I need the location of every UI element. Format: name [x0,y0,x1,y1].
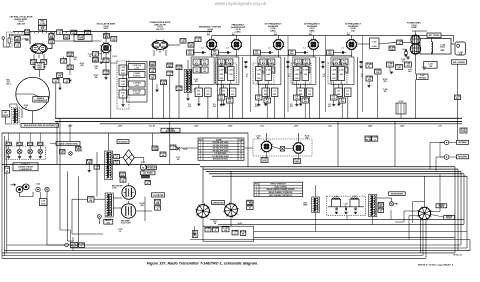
svg-text:16: 16 [119,231,121,233]
svg-text:C-102: C-102 [21,39,26,41]
svg-text:L-107: L-107 [295,70,299,72]
ballast tube RT101 [192,230,197,237]
wires mic transformer [6,117,12,124]
svg-text:100: 100 [177,159,180,161]
svg-text:C-120 470: C-120 470 [133,81,141,84]
svg-text:330: 330 [105,61,108,63]
svg-text:1MEG: 1MEG [93,60,99,62]
bypass cap V104 [220,61,223,63]
mv adjust label box [117,140,129,144]
svg-text:C-119 47: C-119 47 [133,72,140,75]
plug PG101 [6,142,11,145]
svg-text:Y-101: Y-101 [40,23,45,25]
inner boxes V106 [260,59,267,65]
svg-text:100: 100 [257,98,260,100]
svg-text:C-1: C-1 [268,48,271,50]
svg-text:T-3: T-3 [240,148,242,150]
ps lower network box [203,226,254,241]
svg-text:COIL: COIL [121,73,125,75]
coupling boxes V107t [331,95,338,100]
tube V104 [207,40,217,50]
svg-text:270K: 270K [68,68,73,70]
ground V106 [264,103,267,105]
svg-text:50: 50 [89,56,91,58]
screen resistor V106 [262,88,270,97]
ps resistor R150 [247,200,254,204]
grid cap V104 [202,51,204,54]
tube V110 upper [122,186,136,200]
T102 aux boxes [176,65,182,70]
keying relay K103 [71,242,78,247]
handset icon [16,187,23,193]
svg-text:L-102: L-102 [135,68,139,70]
svg-text:F-101: F-101 [213,221,217,223]
svg-text:3-30: 3-30 [121,84,124,86]
svg-text:TUNE: TUNE [239,139,243,141]
svg-text:R-118 1K: R-118 1K [133,76,141,78]
wire line out [377,197,392,199]
svg-text:470: 470 [346,93,349,96]
grid cap V108 [342,51,344,54]
svg-text:12SL7GT: 12SL7GT [17,24,27,26]
tube V102 oscillator ampl [101,43,111,53]
svg-text:L-101: L-101 [121,67,125,69]
svg-text:MODULATION LEVEL ADJUSTMENT: MODULATION LEVEL ADJUSTMENT [24,124,57,127]
cathode cap V107 [306,88,313,97]
wire V105 plate [235,35,237,39]
svg-text:L-103: L-103 [135,85,139,87]
tube V106 [274,40,284,50]
svg-text:470: 470 [297,62,300,65]
bleeder R152 [240,231,246,236]
audio amp mid boxes [67,52,73,57]
voltmeter box [152,193,165,197]
svg-text:100: 100 [112,39,115,41]
wires bridge [113,157,124,159]
svg-text:.01: .01 [122,180,124,182]
svg-text:PG-101: PG-101 [6,144,11,146]
svg-text:3-30: 3-30 [340,74,343,76]
ground audio amp [58,87,61,89]
svg-text:100: 100 [398,68,401,70]
wire V107 plate [312,35,314,39]
svg-text:C-131: C-131 [112,56,117,58]
svg-text:COIL: COIL [295,78,299,80]
svg-text:1MEG: 1MEG [150,64,156,66]
grid line lower [216,55,352,57]
svg-text:.01: .01 [16,45,18,47]
svg-text:C-116: C-116 [121,81,126,83]
socket X101 current regulator [197,205,210,218]
cathode cap V105 [229,88,236,97]
svg-text:C-1: C-1 [308,91,311,93]
resistor R101 [15,37,21,42]
ps loop wires [71,199,73,234]
svg-text:8: 8 [235,233,236,235]
svg-text:ILLUMINATION: ILLUMINATION [19,168,32,171]
svg-text:470: 470 [273,93,276,96]
vertical riser x338 [337,121,339,166]
handset arrow [11,184,16,186]
svg-text:C-1: C-1 [273,91,276,93]
wires V108 to bus [338,85,340,89]
svg-text:POS: POS [199,139,202,141]
ground V105 [222,103,225,105]
rect section left wire [96,152,98,197]
bus bottom 258.3 [2,257,426,259]
tube V101 twin triode [31,44,47,53]
svg-text:SW: SW [89,200,92,202]
inner boxes V105 [218,59,225,65]
svg-text:6AK5: 6AK5 [270,30,276,33]
wires V106 to bus [265,85,267,89]
mic plug circle [389,202,393,206]
svg-text:470: 470 [335,62,338,65]
cathode cap V104 [205,88,212,97]
svg-text:100: 100 [257,137,260,139]
bus bottom 255.6 [2,255,423,257]
svg-text:R-1: R-1 [337,91,340,93]
wires T104 to tubes [113,197,122,199]
wire V102 plate [105,32,107,44]
meter cap C132 [155,206,161,211]
svg-text:250: 250 [74,59,77,61]
filter hump coil 1 [332,199,341,207]
tube V108 [347,40,357,50]
tube V105 [232,40,242,50]
svg-text:P-108: P-108 [249,203,253,205]
osc plate boxes [104,34,110,39]
mic input box [2,111,10,118]
svg-text:C-1: C-1 [226,48,229,50]
svg-text:www.royalsignals.org.uk: www.royalsignals.org.uk [214,1,267,6]
inner boxes V108 [333,59,340,65]
wires jacks [449,142,457,144]
PA left caps [407,56,410,58]
svg-text:R-1: R-1 [299,91,302,93]
svg-text:470: 470 [262,62,265,65]
svg-text:C-1: C-1 [246,74,249,76]
vertical riser x60 [59,118,61,230]
svg-text:L-1: L-1 [347,33,350,35]
coupling boxes V106t [294,95,301,100]
svg-text:47: 47 [122,95,124,98]
wire plug left [395,211,418,222]
tank circuit box L-105 [216,63,237,84]
cathode string V102 [100,51,102,60]
screen network box V108 [331,57,354,85]
aux resistor boxes left of T103 [87,160,93,165]
speech compensator circle [16,77,50,111]
receiver jack J103 [444,155,449,160]
svg-text:470: 470 [195,62,198,65]
shield partition 4 [362,36,364,112]
svg-text:T-6: T-6 [240,156,242,158]
svg-text:COIL: COIL [257,78,261,80]
left wrap wire outer [1,133,3,258]
ground V108 [337,103,340,105]
wire V108 plate [351,35,353,39]
svg-text:C-136: C-136 [266,70,271,72]
receiver label box [457,155,469,159]
svg-text:100: 100 [151,71,154,73]
svg-text:C-1: C-1 [341,48,344,50]
ground V101 cathode [32,66,35,68]
audio outline box [74,34,92,41]
svg-text:C-153: C-153 [428,63,433,65]
ps switch S101 [88,197,95,203]
svg-text:8: 8 [208,230,209,232]
svg-text:C-1: C-1 [303,48,306,50]
filter caps [335,208,337,211]
vertical riser x170 [169,121,171,164]
wires V107 to bus [300,85,302,89]
capacitor C101 [15,43,21,48]
speech compensator box [33,97,49,102]
svg-text:R-131: R-131 [141,162,145,164]
dark adjust slug [142,175,150,178]
svg-text:R-1: R-1 [213,104,216,106]
vertical riser x70 [69,124,71,142]
bus right riser 2 [457,169,459,251]
meter resistor R133 [155,200,161,205]
svg-text:TERM: TERM [461,131,467,133]
wire antenna feed down [457,64,459,140]
left small component R-161 [5,167,10,174]
svg-text:8: 8 [157,208,158,210]
handset plug PL68 [45,187,49,191]
filter hump coil 2 [350,199,359,207]
tube V111 lower rectifier [121,204,135,218]
handset jack J104 [36,187,40,191]
coupling caps V8 PA [366,63,373,68]
svg-text:470: 470 [195,80,198,83]
svg-text:829B: 829B [412,27,417,29]
tank circuit box L-107 [291,63,311,84]
antenna feedthru [455,42,466,55]
antenna loading box [452,60,467,64]
svg-text:C-133: C-133 [229,70,234,72]
svg-text:100: 100 [220,98,223,100]
cathode cap V106 [271,88,278,97]
oven resistor R139 [160,152,166,157]
receptacle box [104,219,113,224]
svg-text:L-1: L-1 [274,33,277,35]
shield partition 3 [325,36,327,112]
svg-text:.01: .01 [374,139,376,141]
wire handset to keying [47,192,65,245]
phase shift network box [127,62,148,103]
xtal osc adjustment callout [161,128,180,132]
tank circuit box L-108 [328,63,347,84]
PA cathode network [387,62,394,67]
bus right riser 3 [460,171,462,245]
svg-text:.5: .5 [172,148,173,150]
mic transformer T101 [14,109,15,112]
svg-text:L-1: L-1 [207,33,210,35]
svg-text:6AK5: 6AK5 [235,31,241,34]
rectifier bridge CR101 [123,150,134,166]
svg-text:1MEG: 1MEG [295,162,301,164]
svg-text:.01: .01 [58,33,60,35]
svg-text:ANT. LOADING: ANT. LOADING [453,61,466,64]
grid cap V105 [226,51,228,54]
grid resistor R114 [93,58,99,63]
capacitor C103 [41,60,47,65]
svg-text:100K: 100K [79,38,84,40]
capacitor C102 [26,38,29,40]
bus right riser 1 [454,167,456,253]
bus ps to plug 219 [210,218,464,220]
control cable box [436,204,447,208]
left wrap wire third [6,140,8,253]
svg-text:.005: .005 [104,73,107,75]
microphone callout box [389,192,406,196]
wire PA plate up [415,31,417,35]
current regulator box [212,201,225,205]
screen network box V105 [216,57,239,85]
grid resistor V108 [327,50,334,55]
wire V106 plate [277,35,279,39]
plug PG103 [28,142,33,145]
socket X102 current regulator [225,204,238,217]
oven cap C154 [170,145,176,150]
meter M101 [140,164,146,170]
second rail y41 [55,40,101,42]
wire plug riser down 2 [422,219,424,255]
svg-text:47: 47 [95,53,97,56]
svg-text:POS: POS [255,184,258,186]
loading coil component [455,95,461,100]
svg-text:R-161: R-161 [5,168,10,170]
filter output stubs [315,213,317,232]
svg-text:500K: 500K [37,68,42,70]
handset cord [20,192,34,197]
svg-text:CABLE CONNECTIONS: CABLE CONNECTIONS [58,142,78,145]
tube V103 phase modulator [152,41,168,50]
svg-text:L-1: L-1 [232,33,235,35]
svg-text:.05: .05 [65,81,67,83]
relay K101 [396,103,406,114]
wires keying [68,244,70,246]
svg-text:.005: .005 [195,71,198,73]
ant tuning box [427,33,441,38]
wires V103 pins [153,50,155,56]
antenna jack J102 [444,140,449,145]
fuse box F102 [60,150,66,154]
svg-text:.005: .005 [368,79,371,81]
wires coil box [122,75,124,79]
crystal X mark [177,147,181,151]
line transformer T106 [371,196,372,199]
svg-text:L-117: L-117 [353,196,357,198]
mic input jack J101 [7,32,13,47]
svg-text:T-2: T-2 [240,145,242,147]
bus group line 2 [203,168,458,170]
bypass cap V105 [244,61,247,63]
bus ps to plug 224.6 [218,224,464,226]
slug boxes [145,181,151,185]
wires ps verticals [202,167,204,205]
wire plug to bus up [424,176,426,207]
svg-text:T-1: T-1 [240,142,242,144]
resistor R102 [25,30,30,35]
wire V1 grid [9,35,30,44]
svg-text:C-1: C-1 [201,48,204,50]
svg-text:47: 47 [116,156,118,159]
svg-text:220K: 220K [64,37,69,39]
svg-text:3-30: 3-30 [304,74,307,76]
wires V103 to bus [152,79,154,118]
wires V101 pins down [33,54,35,60]
V103 grid boxes [150,62,156,67]
svg-text:CURRENT REG: CURRENT REG [212,202,224,204]
PA tank coil [432,42,433,44]
vertical riser x78 [77,176,79,240]
svg-text:6865TS D—53 (Face page 208): 6865TS D—53 (Face page 208) No. 8 [418,264,454,266]
grid resistor V107 [288,50,295,55]
svg-text:RELAY: RELAY [365,138,372,141]
bus ps to plug 231.5 [254,231,467,233]
wire crystal to bus [42,30,44,32]
pilot lamp I101 [97,215,101,219]
svg-text:V-110: V-110 [112,188,117,190]
resistor R103 [31,60,37,65]
mic jack resistor R145 [378,203,384,207]
svg-text:100: 100 [332,98,335,100]
svg-text:R-1: R-1 [328,104,331,106]
bus group line 4 [209,173,464,175]
wire V104 plate [211,35,213,39]
svg-text:100: 100 [182,41,185,43]
wire plug right up [431,211,440,213]
bus bottom 252.9 [2,252,455,254]
screen resistor V105 [220,88,228,97]
screen network box V107 [293,57,316,85]
filter cap C161 [213,227,219,232]
grid cap V107 [303,51,305,54]
svg-text:VOLTMETER: VOLTMETER [153,195,164,197]
svg-text:100: 100 [151,77,154,79]
svg-text:T-107: T-107 [372,41,376,43]
svg-text:SW: SW [77,149,80,151]
screen resistor V108 [335,88,343,97]
svg-text:T-5: T-5 [240,153,242,155]
svg-text:100: 100 [178,89,181,91]
screen network box V104 [191,57,214,85]
svg-text:470K: 470K [120,174,125,177]
plug PG104 [38,142,43,145]
svg-text:J-101: J-101 [41,200,45,202]
svg-text:CONTROL: CONTROL [438,204,445,206]
wires ps risers [98,219,100,225]
afc transformer T103 [107,152,108,155]
lamp I102 [69,152,73,156]
svg-text:C-1: C-1 [206,91,209,93]
keyer line from multivib [172,147,198,149]
ground ps [193,233,196,235]
svg-text:C-1: C-1 [361,74,364,76]
svg-text:PG-102: PG-102 [17,144,22,146]
svg-text:.001: .001 [406,65,409,67]
svg-text:T-7: T-7 [240,159,242,161]
modulation transformer T105 [314,198,315,201]
vertical riser x67 [66,171,68,241]
modulator top boxes [180,39,186,44]
svg-text:COMPENSATOR: COMPENSATOR [34,99,48,102]
svg-text:PL-68: PL-68 [41,203,45,205]
pa aux cap box [424,62,437,69]
